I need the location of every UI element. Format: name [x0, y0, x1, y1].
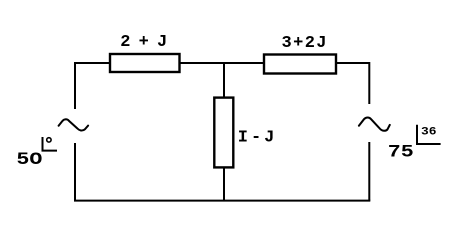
svg-text:3+2J: 3+2J [282, 34, 327, 53]
svg-text:5O: 5O [16, 150, 42, 170]
svg-text:2 + J: 2 + J [120, 33, 167, 52]
svg-text:I - J: I - J [238, 129, 274, 148]
svg-text:36: 36 [421, 127, 437, 139]
svg-text:75: 75 [388, 142, 414, 162]
